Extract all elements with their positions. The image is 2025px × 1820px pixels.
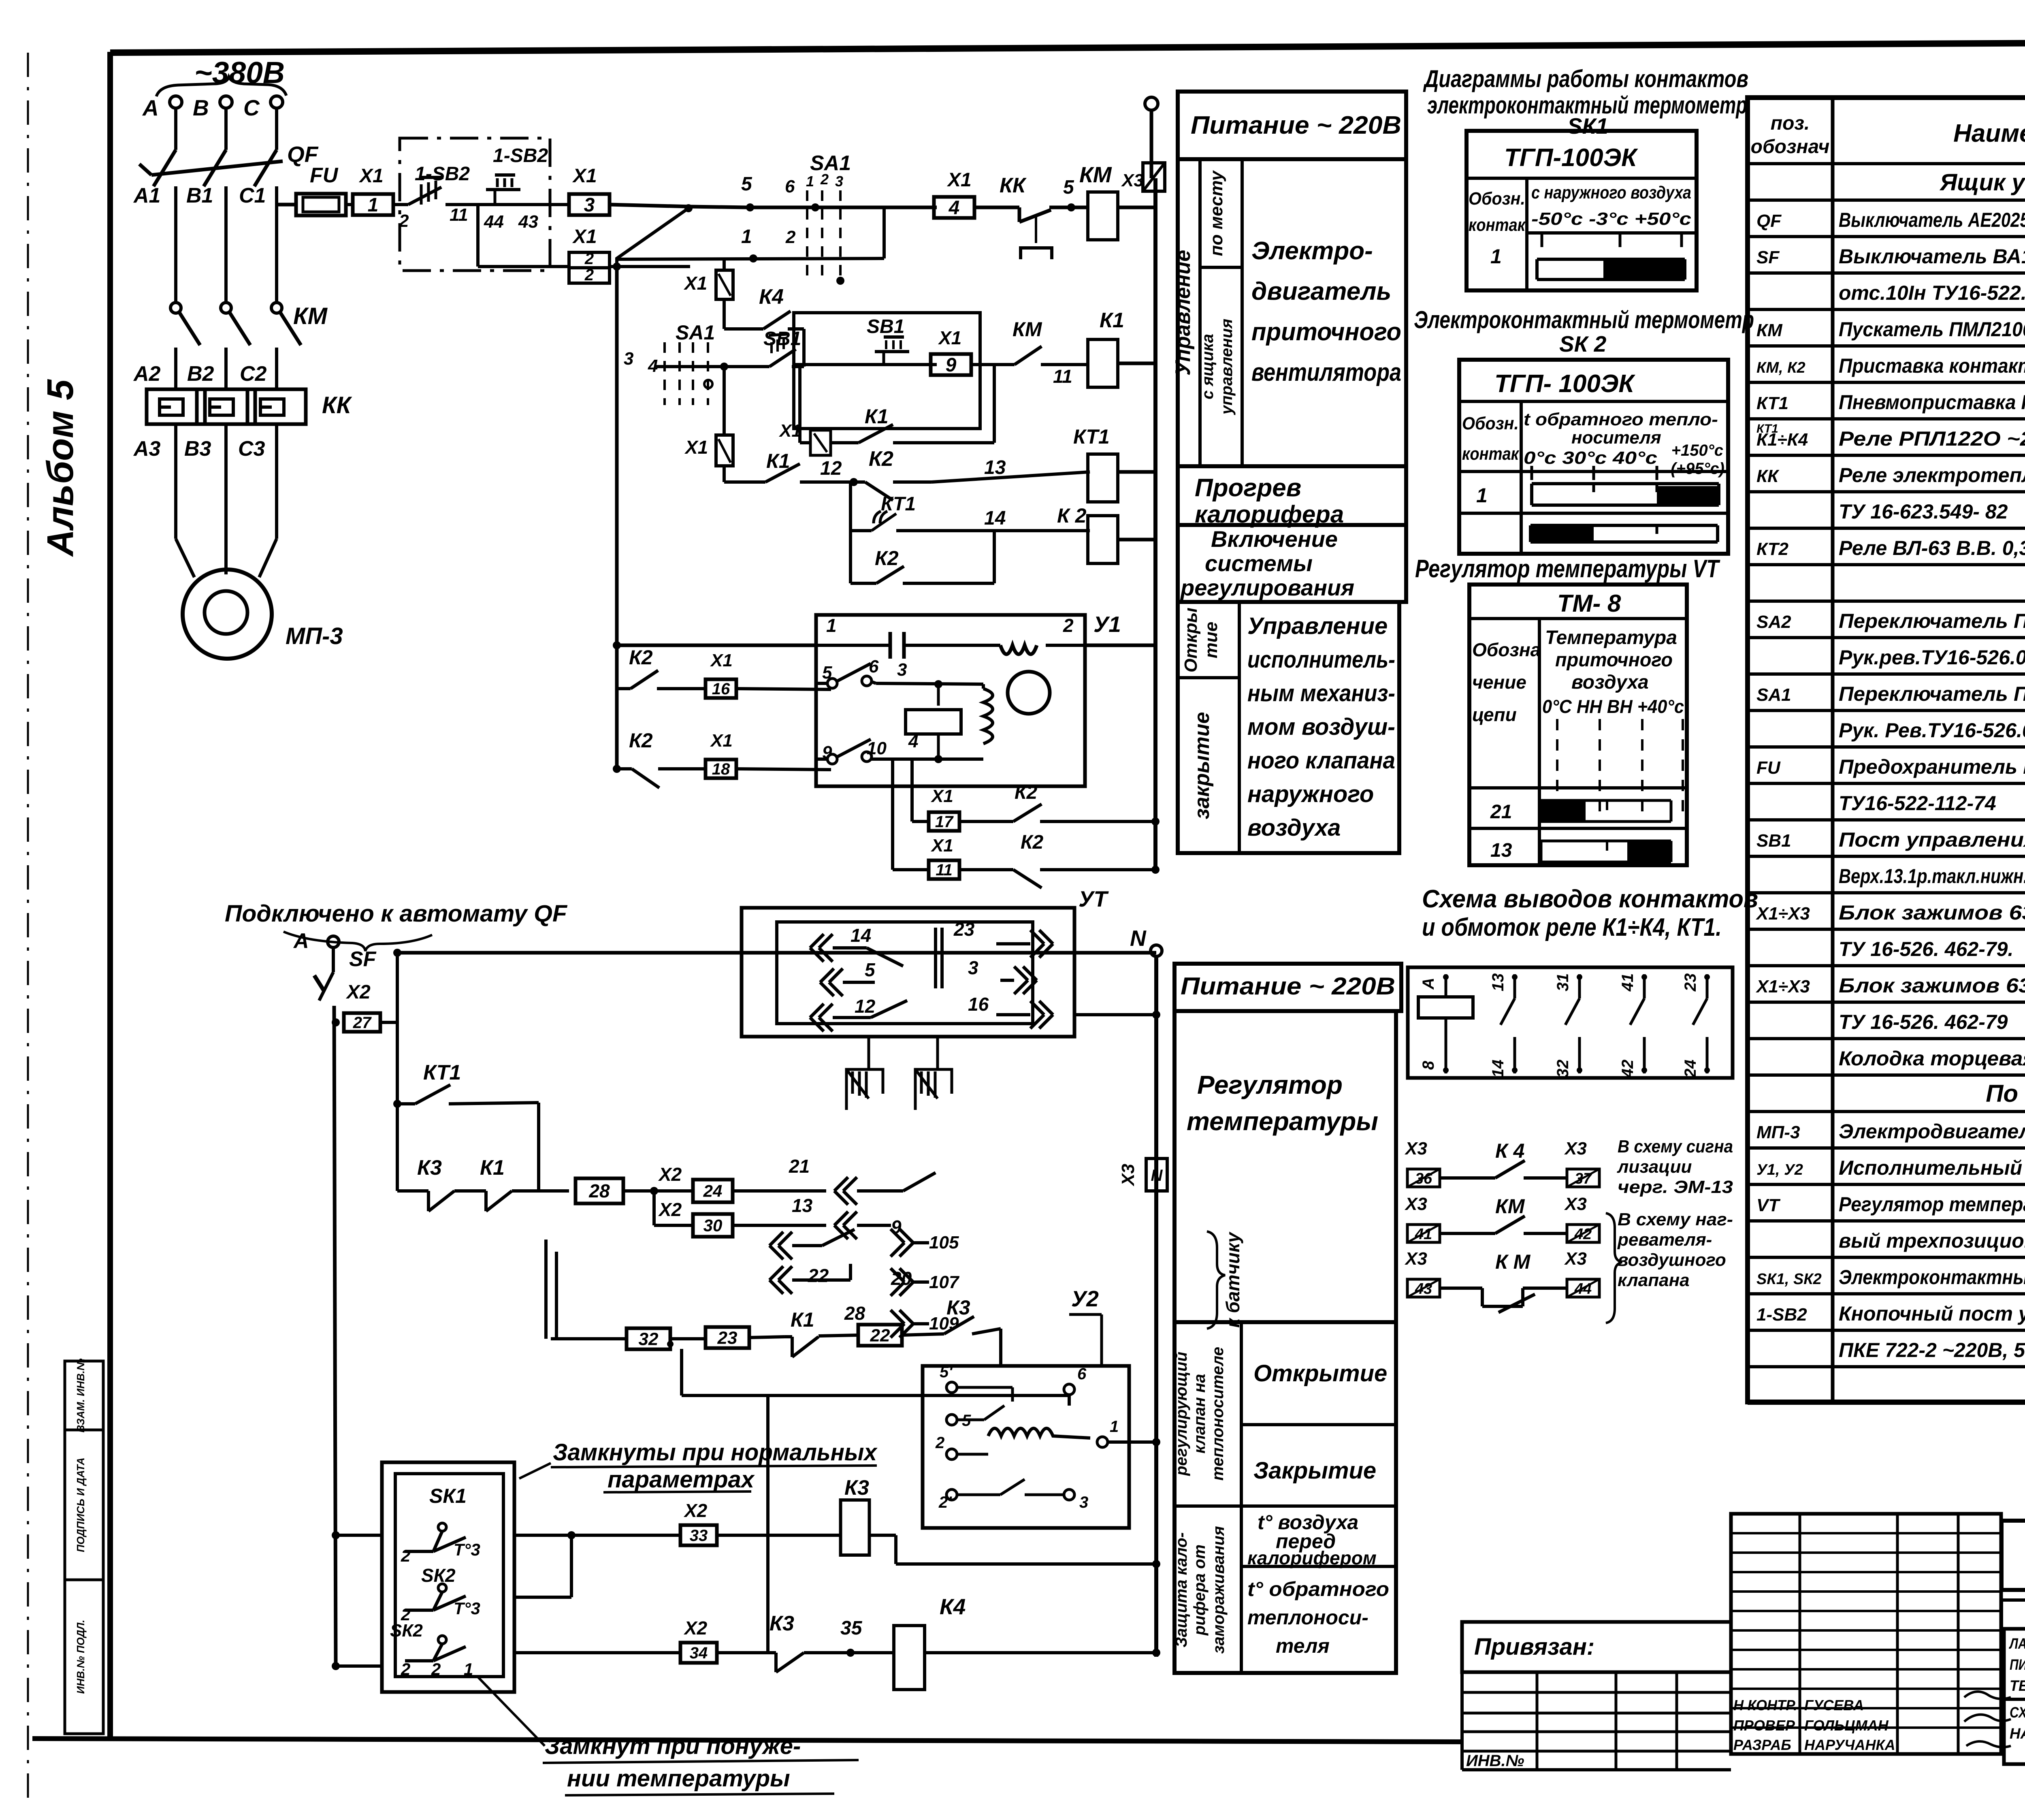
svg-text:К1: К1 [791,1308,814,1331]
capacitor block in U1 [906,710,961,734]
svg-text:Х3: Х3 [1564,1249,1587,1269]
svg-text:ВЗАМ. ИНВ.№: ВЗАМ. ИНВ.№ [75,1358,87,1432]
branch wire to X1:2 [476,205,480,267]
svg-text:закрытие: закрытие [1190,712,1214,819]
svg-text:вый трехпозиционным ТМ-8 0÷40: вый трехпозиционным ТМ-8 0÷40°с [1839,1229,2025,1252]
svg-text:К4: К4 [759,285,784,309]
svg-text:21: 21 [1490,801,1512,823]
svg-text:У1: У1 [1093,612,1121,637]
svg-text:1: 1 [741,226,752,248]
svg-text:Х1: Х1 [684,437,708,458]
svg-text:2: 2 [401,1546,410,1565]
svg-text:Х1: Х1 [778,421,801,441]
svg-text:Х1÷Х3: Х1÷Х3 [1755,977,1810,996]
box: temperature regulator [1174,1011,1396,1322]
svg-text:Х3: Х3 [1404,1249,1427,1269]
svg-text:С: С [243,95,260,120]
box: power 220 (lower) [1174,964,1401,1011]
svg-text:и обмоток реле К1÷К4, КТ1.: и обмоток реле К1÷К4, КТ1. [1422,913,1722,941]
rung 3c: K2 self contact [849,531,852,583]
svg-text:Блок зажимов 63 24-4,ап25-В/В: Блок зажимов 63 24-4,ап25-В/В У3- 5 [1839,901,2025,924]
svg-text:НАРУЧАНКА: НАРУЧАНКА [1804,1737,1895,1753]
svg-text:Х1: Х1 [358,165,384,187]
svg-text:1: 1 [1476,484,1488,507]
svg-text:ТУ16-522-112-74: ТУ16-522-112-74 [1839,792,1996,815]
svg-text:24: 24 [703,1182,723,1201]
svg-text:Обозна: Обозна [1472,639,1541,660]
svg-text:2: 2 [399,211,409,231]
svg-text:Т°3: Т°3 [454,1599,480,1618]
capacitor in U1 [816,644,890,647]
svg-text:приточного: приточного [1555,649,1673,671]
svg-text:параметрах: параметрах [607,1466,755,1493]
brace к датчику [1207,1231,1225,1329]
svg-text:А2: А2 [133,362,161,386]
relay coil K2 [1088,516,1118,563]
actuator U1 box [816,615,1085,786]
svg-text:1: 1 [368,194,379,216]
svg-text:23: 23 [1682,973,1699,992]
sheet trim line [27,53,29,1807]
svg-text:контак: контак [1462,444,1520,464]
svg-text:ным механиз-: ным механиз- [1247,680,1395,706]
svg-text:управления: управления [1218,319,1236,415]
svg-text:105: 105 [929,1233,959,1252]
svg-text:SВ1: SВ1 [763,328,801,350]
svg-text:Приставка контактная ПКЛТУ16-5: Приставка контактная ПКЛТУ16-526.437-78 [1839,354,2025,377]
SK2 contact [438,1584,446,1592]
SB2 stop contact [400,203,408,206]
svg-text:Откры: Откры [1181,608,1201,672]
svg-text:А3: А3 [133,437,161,461]
svg-text:К3: К3 [844,1476,869,1500]
svg-text:43: 43 [518,212,538,232]
thermal relay KK [147,389,205,424]
svg-text:Рук.рев.ТУ16-526.047-74: Рук.рев.ТУ16-526.047-74 [1839,646,2025,669]
svg-text:42: 42 [1619,1060,1637,1078]
svg-text:К М: К М [1495,1250,1531,1273]
svg-text:Температура: Температура [1545,627,1677,649]
motor MP-3 [176,539,194,577]
svg-text:5: 5 [1063,177,1074,198]
svg-text:9: 9 [946,354,957,376]
svg-text:14: 14 [984,508,1006,529]
svg-text:По месту: По месту [1986,1080,2025,1107]
svg-text:поз.: поз. [1771,113,1810,134]
svg-text:Блок зажимов 632-4-4,ап25-В/В: Блок зажимов 632-4-4,ап25-В/В У3-10 [1839,974,2025,997]
svg-text:-50°с -3°с +50°с: -50°с -3°с +50°с [1531,209,1691,229]
svg-text:Замкнут при понуже-: Замкнут при понуже- [545,1733,801,1759]
svg-text:QF: QF [287,142,319,167]
svg-text:Пост управления ПКЕ-122-2У3- т: Пост управления ПКЕ-122-2У3- толк. [1839,828,2025,851]
svg-text:В: В [193,95,209,120]
svg-text:КК: КК [1000,174,1027,197]
svg-text:Х2: Х2 [683,1617,708,1639]
transformer bars [934,928,937,988]
svg-text:регулирования: регулирования [1180,575,1354,600]
svg-text:1-SВ2: 1-SВ2 [415,163,470,185]
svg-text:В3: В3 [184,437,211,461]
svg-text:Реле РПЛ122О ~220В ТУ16-523.55: Реле РПЛ122О ~220В ТУ16-523.554-78 [1839,427,2025,450]
svg-text:ТМ- 8: ТМ- 8 [1557,590,1621,617]
title block: TP row [2002,1521,2025,1590]
svg-text:1-SВ2: 1-SВ2 [493,145,548,166]
svg-text:Включение: Включение [1211,526,1338,552]
svg-text:32: 32 [1554,1060,1572,1078]
SB2 start contact [482,203,550,206]
svg-text:Реле электротепловое РТЛ101604: Реле электротепловое РТЛ101604 [1839,464,2025,486]
svg-text:2: 2 [1063,615,1074,636]
svg-text:ЛАБОРАТОРНАЯ ДЛЯ ОБЕЗЗАРАЖИВАН: ЛАБОРАТОРНАЯ ДЛЯ ОБЕЗЗАРАЖИВАНИЯ [2009,1635,2025,1652]
rung 3: KT1 heater warmup [723,367,726,435]
svg-text:22: 22 [808,1265,829,1286]
svg-text:Т°3: Т°3 [454,1540,480,1559]
svg-text:Х3: Х3 [1121,171,1144,190]
junction to top rail [396,953,399,1022]
fuse FU [296,194,346,215]
svg-text:18: 18 [712,760,730,778]
svg-text:А: А [293,929,309,953]
svg-text:41: 41 [1619,973,1637,992]
svg-text:ИНВ.№: ИНВ.№ [1466,1752,1524,1770]
svg-text:КМ: КМ [293,303,328,329]
left drop to KT1 rung [396,1022,399,1191]
svg-text:27: 27 [353,1014,372,1032]
box: bottom rows [1174,1322,1396,1673]
svg-text:Наименование: Наименование [1953,119,2025,147]
svg-text:ного клапана: ного клапана [1247,747,1395,774]
svg-text:5: 5 [865,959,876,980]
svg-text:Регулятор температуры VТ: Регулятор температуры VТ [1415,555,1720,583]
svg-text:чение: чение [1472,672,1526,693]
svg-text:SК1, SК2: SК1, SК2 [1756,1271,1822,1288]
svg-text:ТЕЛЬНОСТЬЮ 12,5КГ. ХЛОРА В ЧАС: ТЕЛЬНОСТЬЮ 12,5КГ. ХЛОРА В ЧАС. [2010,1677,2025,1694]
svg-text:А: А [1420,978,1437,990]
svg-text:2: 2 [785,227,796,247]
svg-text:Переключатель ПКУ3-12С-У3схема: Переключатель ПКУ3-12С-У3схема 01а2 [1839,610,2025,632]
svg-text:КК: КК [322,392,352,418]
SK1 table [1467,131,1697,290]
svg-text:13: 13 [1489,973,1507,992]
svg-text:КК: КК [1756,466,1780,486]
svg-text:Реле ВЛ-63 В.В. 0,3-3МИН~220В: Реле ВЛ-63 В.В. 0,3-3МИН~220В [1839,537,2025,559]
svg-text:Закрытие: Закрытие [1253,1457,1376,1484]
svg-text:К1: К1 [480,1156,505,1180]
svg-text:Пневмоприставка ПВЛ1104 ТУ16-5: Пневмоприставка ПВЛ1104 ТУ16-526.437-78 [1839,391,2025,414]
brace [1606,1213,1622,1323]
svg-text:Колодка торцевая КТ5УТУ16-526.: Колодка торцевая КТ5УТУ16-526.462-79 [1839,1047,2025,1070]
svg-text:Х1: Х1 [710,651,733,670]
rung 4: U1 top [617,644,816,647]
svg-text:14: 14 [1489,1060,1507,1078]
svg-text:Предохранитель ПРС-6У3-ПIпл.Вс: Предохранитель ПРС-6У3-ПIпл.Вст. 4А, [1839,755,2025,778]
svg-text:Х3: Х3 [1118,1164,1138,1187]
rung 8: X1-11 K2 [891,761,894,870]
svg-text:32: 32 [639,1329,659,1349]
svg-text:SА1: SА1 [1756,685,1791,705]
svg-text:4: 4 [949,197,960,219]
svg-text:1: 1 [1110,1418,1119,1436]
svg-text:8: 8 [1420,1060,1437,1070]
svg-text:16: 16 [968,994,989,1015]
svg-text:У1, У2: У1, У2 [1756,1161,1803,1178]
svg-text:К2: К2 [629,646,653,669]
wire C1 to FU [277,203,296,207]
SK2b contact [438,1636,446,1644]
svg-text:SА1: SА1 [810,151,851,175]
svg-text:SК2: SК2 [421,1565,456,1586]
svg-text:Х3: Х3 [1404,1194,1427,1214]
svg-text:К2: К2 [1015,782,1038,803]
svg-text:Альбом 5: Альбом 5 [40,379,81,557]
svg-text:23: 23 [953,919,975,940]
svg-text:28: 28 [588,1180,610,1201]
svg-text:КМ: КМ [1495,1195,1525,1218]
rung 7: X1-17 K2 [910,761,914,821]
svg-text:Замкнуты при нормальных: Замкнуты при нормальных [553,1439,878,1466]
svg-text:К3: К3 [946,1296,970,1319]
svg-text:теплоносителе: теплоносителе [1209,1347,1227,1481]
svg-text:контак: контак [1469,215,1526,235]
self hold branch K1 [798,365,801,443]
svg-text:2: 2 [584,266,594,284]
svg-text:С3: С3 [238,437,265,461]
svg-text:Электроконтактный термометр: Электроконтактный термометр [1414,306,1754,333]
svg-text:отс.10Iн ТУ16-522.110-74.: отс.10Iн ТУ16-522.110-74. [1839,282,2025,304]
svg-text:3: 3 [624,349,633,369]
svg-text:Подключено к автомату QF: Подключено к автомату QF [225,900,568,927]
svg-text:Выключатель АЕ2025-10У3~380ВТУ: Выключатель АЕ2025-10У3~380ВТУ16.522.064… [1839,209,2025,231]
svg-text:ГУСЕВА: ГУСЕВА [1804,1697,1864,1713]
svg-text:17: 17 [935,813,954,831]
svg-text:нии температуры: нии температуры [567,1765,790,1792]
svg-text:Х3: Х3 [1404,1139,1427,1159]
svg-text:1: 1 [826,615,837,636]
svg-text:2: 2 [431,1660,441,1679]
svg-text:К3: К3 [417,1156,442,1180]
svg-text:Х2: Х2 [658,1199,682,1220]
svg-text:КТ2: КТ2 [1756,539,1788,559]
svg-text:35: 35 [840,1617,863,1639]
svg-text:Х1: Х1 [572,226,597,248]
svg-text:исполнитель-: исполнитель- [1247,646,1395,673]
svg-text:мом воздуш-: мом воздуш- [1247,714,1395,740]
svg-text:SК1: SК1 [1567,113,1608,139]
svg-text:ТУ 16-526. 462-79: ТУ 16-526. 462-79 [1839,1011,2008,1033]
svg-text:вентилятора: вентилятора [1251,358,1401,386]
rung SK2 join [514,1596,571,1599]
svg-text:Схема выводов контактов: Схема выводов контактов [1422,885,1758,913]
svg-text:Управление: Управление [1171,250,1195,376]
svg-text:К1: К1 [1100,309,1124,332]
phase terminals A B C [170,96,182,108]
svg-text:13: 13 [1490,840,1512,861]
svg-text:1: 1 [1490,245,1502,268]
svg-text:Х3: Х3 [1564,1139,1587,1159]
svg-text:ТУ 16-526. 462-79.: ТУ 16-526. 462-79. [1839,938,2013,960]
breaker QF [153,150,176,186]
svg-text:14: 14 [850,925,871,946]
svg-text:с ящика: с ящика [1199,334,1217,399]
svg-text:цепи: цепи [1472,704,1517,725]
svg-text:приточного: приточного [1251,318,1401,346]
svg-text:температуры: температуры [1187,1107,1378,1136]
svg-text:ПРОВЕР: ПРОВЕР [1733,1717,1795,1734]
X2-30 rung [652,1191,656,1225]
svg-text:Исполнительный механизм МЭО: Исполнительный механизм МЭО [1839,1156,2025,1179]
svg-text:Х1: Х1 [938,327,961,348]
frame border [107,52,113,1738]
right rail (upper) [1153,178,1157,863]
svg-text:лизации: лизации [1617,1157,1692,1177]
svg-text:3: 3 [897,660,907,680]
svg-text:ревателя-: ревателя- [1617,1230,1712,1250]
svg-text:РАЗРАБ: РАЗРАБ [1733,1737,1791,1753]
svg-text:калорифером: калорифером [1247,1547,1377,1568]
svg-text:МП-3: МП-3 [1756,1122,1800,1142]
bottom rung K4 [332,1662,340,1670]
svg-text:К 2: К 2 [1057,504,1087,527]
svg-text:16: 16 [712,680,730,698]
svg-text:Х2: Х2 [658,1164,682,1185]
sidebar stamp boxes [65,1361,103,1430]
svg-text:SF: SF [1756,248,1780,267]
svg-text:Х1: Х1 [710,731,733,751]
svg-text:2: 2 [820,171,829,188]
svg-text:У2: У2 [1071,1286,1099,1311]
svg-text:11: 11 [450,205,468,225]
svg-text:6: 6 [869,657,879,676]
svg-text:28: 28 [844,1303,865,1324]
svg-text:34: 34 [690,1644,708,1662]
svg-text:33: 33 [690,1527,708,1545]
svg-text:1-SВ2: 1-SВ2 [1756,1305,1807,1325]
svg-text:SА1: SА1 [676,321,715,344]
svg-text:Х2: Х2 [683,1500,708,1521]
title block: middle grid [1731,1514,2001,1754]
svg-text:Регулятор: Регулятор [1197,1070,1343,1099]
svg-text:2: 2 [401,1660,410,1679]
svg-text:SF: SF [349,947,377,971]
svg-text:ИНВ.№ ПОДЛ.: ИНВ.№ ПОДЛ. [75,1620,87,1694]
svg-text:SК1: SК1 [429,1485,467,1507]
svg-text:КТ1: КТ1 [1756,422,1778,435]
svg-text:2: 2 [935,1434,944,1452]
parts table frame [1748,98,2025,1402]
svg-text:с наружного воздуха: с наружного воздуха [1531,183,1691,203]
svg-text:ПИТЬЕВЫХ И СТОЧНЫХ ВОД ПРОИЗВО: ПИТЬЕВЫХ И СТОЧНЫХ ВОД ПРОИЗВОДИ- [2010,1656,2025,1673]
svg-text:N: N [1130,926,1147,951]
svg-text:Х1: Х1 [930,786,953,806]
svg-text:Обозн.: Обозн. [1462,414,1519,433]
svg-text:t° обратного: t° обратного [1247,1578,1389,1600]
svg-text:6: 6 [785,177,795,196]
svg-text:0°с 30°с 40°с: 0°с 30°с 40°с [1524,448,1657,468]
svg-text:12: 12 [820,458,842,479]
svg-text:Х1: Х1 [572,165,597,187]
svg-text:Х2: Х2 [345,981,371,1003]
svg-text:К2: К2 [629,729,653,752]
svg-text:SВ1: SВ1 [867,316,904,337]
rung 3b: KT1 delayed contact [849,482,852,531]
svg-text:3: 3 [835,173,843,190]
svg-text:FU: FU [1756,758,1781,778]
svg-text:наружного: наружного [1247,781,1374,807]
svg-text:31: 31 [1554,973,1572,992]
winding symbols below [846,1069,883,1110]
svg-text:0°С НН ВН +40°с: 0°С НН ВН +40°с [1542,696,1684,717]
svg-text:КМ, К2: КМ, К2 [1756,359,1805,376]
svg-text:тие: тие [1201,622,1221,658]
svg-text:В1: В1 [186,184,213,207]
svg-text:5': 5' [940,1363,953,1381]
svg-text:1: 1 [464,1660,473,1679]
svg-text:клапана: клапана [1618,1270,1690,1290]
lower rung 32-23-K1-22-K3 [551,1337,627,1340]
svg-text:Н КОНТР.: Н КОНТР. [1733,1697,1797,1713]
svg-text:11: 11 [936,861,953,879]
rung SK1 - K3 coil [332,1531,340,1539]
svg-text:t обратного тепло-: t обратного тепло- [1524,410,1718,429]
svg-text:3: 3 [1079,1494,1088,1511]
svg-text:клапан на: клапан на [1191,1374,1209,1454]
svg-text:2': 2' [938,1494,952,1511]
svg-text:3: 3 [584,194,595,216]
svg-text:Переключатель ПКУ3-12С-У3схема: Переключатель ПКУ3-12С-У3схема 2001 [1839,683,2025,705]
svg-text:носителя: носителя [1571,428,1661,448]
wire from U2 to rail [1108,1440,1156,1444]
svg-text:Х1: Х1 [930,836,953,856]
svg-text:24: 24 [1682,1060,1699,1078]
motor circle in U1 [1008,672,1050,714]
svg-text:А1: А1 [133,184,160,207]
svg-text:SА2: SА2 [1756,612,1791,632]
box: motor control [1178,159,1406,466]
svg-text:КТ1: КТ1 [1756,393,1788,413]
svg-text:Х3: Х3 [1564,1194,1587,1214]
svg-text:Кнопочный пост управления: Кнопочный пост управления [1839,1302,2025,1325]
svg-text:Обозн.: Обозн. [1469,189,1525,209]
svg-text:Пускатель ПМЛ210004~220ВТУ16-5: Пускатель ПМЛ210004~220ВТУ16-526.437-78 [1839,318,2025,341]
svg-text:Х1÷Х3: Х1÷Х3 [1755,904,1810,924]
svg-text:КТ1: КТ1 [423,1061,461,1084]
svg-text:+150°с: +150°с [1671,442,1723,459]
svg-text:К1: К1 [865,405,889,428]
svg-text:К3: К3 [769,1612,794,1635]
svg-text:КМ: КМ [1079,162,1112,187]
svg-text:Выключатель ВА14-2614 Iр=1,: Выключатель ВА14-2614 Iр=1,6А [1839,245,2025,268]
svg-text:В схему сигна: В схему сигна [1618,1137,1733,1156]
box: regulation system on [1178,525,1406,602]
contactor KM main contacts [171,303,181,313]
svg-text:6: 6 [1077,1365,1087,1383]
junction + vertical rail from X1:2 [684,204,693,212]
svg-text:В схему наг-: В схему наг- [1618,1210,1733,1229]
svg-text:В2: В2 [187,362,214,386]
svg-text:теля: теля [1276,1634,1330,1657]
svg-text:SВ1: SВ1 [1756,831,1791,851]
brace [156,77,286,96]
winding bumps right [983,689,993,744]
svg-text:ТГП-100ЭК: ТГП-100ЭК [1504,144,1638,172]
svg-text:Электро-: Электро- [1251,237,1373,265]
svg-text:Прогрев: Прогрев [1195,474,1301,502]
svg-text:N: N [1151,1167,1163,1184]
svg-text:QF: QF [1756,211,1782,231]
svg-text:2: 2 [584,250,594,268]
svg-text:ГОЛЬЦМАН: ГОЛЬЦМАН [1804,1717,1889,1734]
svg-text:VТ: VТ [1756,1195,1780,1215]
